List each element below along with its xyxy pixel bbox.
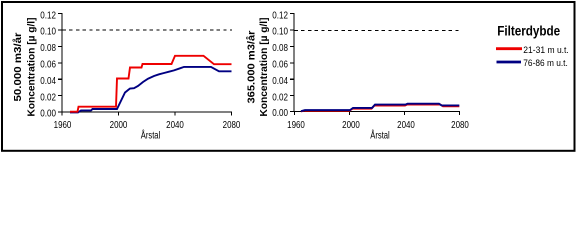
svg-text:0.00: 0.00 xyxy=(272,108,288,119)
y-axis tick labels xyxy=(40,10,56,119)
outer border frame xyxy=(2,2,575,151)
dashed 0.10 guideline xyxy=(295,30,461,32)
x-axis ticks xyxy=(295,112,460,116)
svg-text:50.000 m3/år: 50.000 m3/år xyxy=(12,32,24,101)
svg-text:2080: 2080 xyxy=(223,120,241,131)
svg-text:Årstal: Årstal xyxy=(370,129,390,142)
x-axis line xyxy=(62,111,232,113)
dashed 0.10 guideline xyxy=(63,29,233,31)
svg-text:0.04: 0.04 xyxy=(40,76,56,87)
svg-text:2040: 2040 xyxy=(397,120,415,131)
svg-text:2000: 2000 xyxy=(342,120,360,131)
svg-text:21-31 m u.t.: 21-31 m u.t. xyxy=(523,45,569,55)
y-axis ticks xyxy=(290,14,294,112)
svg-text:1960: 1960 xyxy=(287,120,305,131)
x-axis tick labels xyxy=(287,120,469,131)
y-axis line xyxy=(293,13,295,111)
svg-text:2040: 2040 xyxy=(166,120,184,131)
svg-text:0.02: 0.02 xyxy=(40,92,56,103)
x-axis line xyxy=(294,111,460,113)
svg-text:0.08: 0.08 xyxy=(40,43,56,54)
svg-text:Årstal: Årstal xyxy=(141,129,161,142)
x-axis tick labels xyxy=(54,120,241,131)
svg-text:0.12: 0.12 xyxy=(272,10,288,21)
svg-text:2080: 2080 xyxy=(451,120,469,131)
y-axis ticks xyxy=(58,14,62,112)
svg-text:0.10: 0.10 xyxy=(272,27,288,38)
x-axis ticks xyxy=(62,112,232,116)
svg-text:Koncentration [µ g/l]: Koncentration [µ g/l] xyxy=(259,18,270,117)
svg-text:0.06: 0.06 xyxy=(272,60,288,71)
svg-text:Filterdybde: Filterdybde xyxy=(497,23,560,39)
svg-text:0.00: 0.00 xyxy=(40,109,56,120)
red series 21-31 m u.t. (right) xyxy=(301,105,459,112)
y-axis tick labels xyxy=(272,10,288,119)
svg-text:2000: 2000 xyxy=(110,120,128,131)
svg-text:Koncentration [µ g/l]: Koncentration [µ g/l] xyxy=(27,18,38,117)
blue series 76-86 m u.t. (left) xyxy=(70,67,232,113)
red series 21-31 m u.t. (left) xyxy=(70,56,232,112)
svg-text:0.06: 0.06 xyxy=(40,60,56,71)
svg-text:1960: 1960 xyxy=(54,120,72,131)
svg-text:365.000 m3/år: 365.000 m3/år xyxy=(246,30,258,103)
blue series 76-86 m u.t. (right) xyxy=(301,104,459,112)
svg-text:0.08: 0.08 xyxy=(272,43,288,54)
svg-text:76-86 m u.t.: 76-86 m u.t. xyxy=(523,58,568,68)
svg-text:0.10: 0.10 xyxy=(40,27,56,38)
svg-text:0.04: 0.04 xyxy=(272,76,288,87)
svg-text:0.02: 0.02 xyxy=(272,92,288,103)
legend red swatch xyxy=(496,47,522,50)
legend blue swatch xyxy=(497,61,522,64)
y-axis line xyxy=(61,13,63,112)
svg-text:0.12: 0.12 xyxy=(40,10,56,21)
